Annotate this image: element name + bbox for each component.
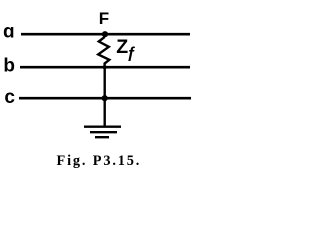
wire: vertical from line c to ground: [103, 98, 105, 127]
wire: vertical from line b to line c: [103, 67, 105, 98]
svg-text:F: F: [99, 9, 109, 28]
svg-text:b: b: [3, 56, 15, 77]
node F junction dot on line a: [102, 31, 108, 37]
svg-text:ƒ: ƒ: [127, 45, 136, 62]
svg-text:c: c: [4, 87, 15, 108]
junction dot on line c: [102, 95, 108, 101]
svg-text:ɑ: ɑ: [3, 21, 15, 42]
svg-text:Fig. P3.15.: Fig. P3.15.: [57, 153, 142, 169]
junction dot on line b: [103, 65, 107, 69]
resistor Zf (zigzag between line a and line b): [98, 35, 109, 68]
wire: phase line c: [19, 97, 191, 100]
ground symbol: [84, 127, 121, 138]
wire: phase line b: [20, 66, 190, 69]
wire: phase line a: [21, 33, 190, 36]
